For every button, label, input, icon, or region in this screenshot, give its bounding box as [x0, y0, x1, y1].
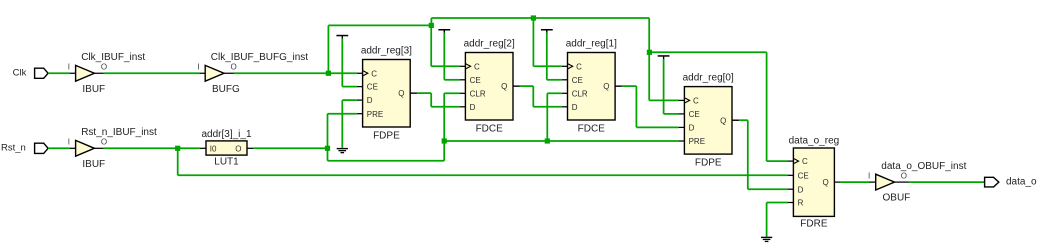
svg-text:CE: CE: [798, 171, 809, 180]
svg-text:O: O: [101, 138, 107, 147]
svg-text:D: D: [572, 103, 578, 112]
ground tie for addr_reg[3] D: [342, 99, 357, 101]
svg-text:Clk_IBUF_BUFG_inst: Clk_IBUF_BUFG_inst: [211, 52, 308, 63]
wire addr_reg[0] Q to data_o_reg D: [733, 119, 740, 121]
svg-text:C: C: [693, 97, 699, 106]
svg-text:Rst_n: Rst_n: [1, 143, 26, 154]
svg-text:D: D: [689, 124, 695, 133]
flip-flop FDRE data_o_reg: [793, 148, 834, 216]
wire LUT1 output net: [247, 147, 253, 149]
wire reset rail to addr_reg[0] PRE pin: [444, 140, 678, 142]
svg-text:Q: Q: [823, 178, 829, 187]
svg-text:CE: CE: [572, 76, 583, 85]
wire Rst_n_IBUF to data_o_reg CE pin: [177, 148, 179, 175]
wire clock drop to addr_reg[0] C pin: [648, 18, 650, 100]
power VCC tie for addr_reg[3] CE: [336, 35, 348, 37]
svg-text:addr[3]_i_1: addr[3]_i_1: [201, 129, 251, 140]
wire Rst_n_IBUF net to LUT1: [94, 147, 103, 149]
buffer IBUF Clk_IBUF_inst: [76, 65, 95, 81]
wire clock drop to addr_reg[2] C pin: [430, 25, 432, 66]
wire addr_reg[1] Q to addr_reg[0] D: [615, 85, 622, 87]
svg-text:I: I: [197, 63, 199, 72]
junction clock branch for data_o_reg: [647, 50, 652, 55]
svg-text:O: O: [231, 62, 237, 71]
svg-text:Clk: Clk: [13, 67, 27, 78]
svg-text:D: D: [798, 185, 804, 194]
svg-text:PRE: PRE: [689, 137, 705, 146]
svg-text:OBUF: OBUF: [883, 193, 911, 204]
junction clock top rail x=431: [429, 23, 434, 28]
wire riser to addr_reg[2] CLR pin: [443, 93, 445, 160]
buffer IBUF Rst_n_IBUF_inst: [76, 140, 95, 156]
svg-text:C: C: [474, 62, 480, 71]
wire LUT1 out lower run: [327, 148, 329, 160]
svg-text:FDRE: FDRE: [800, 219, 828, 230]
svg-text:FDCE: FDCE: [578, 123, 606, 134]
wire clock riser to top rail: [327, 25, 329, 73]
svg-text:Clk_IBUF_inst: Clk_IBUF_inst: [81, 52, 145, 63]
junction reset rail x=444: [442, 138, 447, 143]
ground tie for data_o_reg R: [767, 202, 788, 204]
svg-text:CE: CE: [689, 110, 700, 119]
svg-text:Q: Q: [720, 116, 726, 125]
svg-text:data_o_OBUF_inst: data_o_OBUF_inst: [881, 161, 966, 172]
wire clock top rail y=25.4: [328, 24, 431, 26]
svg-text:FDPE: FDPE: [373, 130, 400, 141]
svg-text:D: D: [470, 103, 476, 112]
lut LUT1 addr[3]_i_1: [206, 141, 247, 155]
svg-text:CLR: CLR: [470, 89, 486, 98]
svg-text:R: R: [798, 199, 804, 208]
svg-text:Q: Q: [501, 82, 507, 91]
svg-text:addr_reg[0]: addr_reg[0]: [683, 73, 734, 84]
input port Clk: [35, 68, 49, 78]
svg-text:Q: Q: [398, 89, 404, 98]
buffer BUFG Clk_IBUF_BUFG_inst: [205, 65, 224, 81]
svg-text:LUT1: LUT1: [214, 156, 239, 167]
svg-text:Q: Q: [603, 82, 609, 91]
wire Clk port to IBUF: [48, 72, 70, 74]
wire clock branch to data_o_reg C pin: [649, 51, 766, 53]
flip-flop FDCE addr_reg[2]: [465, 53, 513, 121]
svg-text:I0: I0: [210, 144, 217, 153]
svg-text:I: I: [868, 171, 870, 180]
flip-flop FDCE addr_reg[1]: [568, 53, 616, 121]
svg-text:C: C: [576, 62, 582, 71]
wire data_o_reg Q to OBUF: [840, 181, 869, 183]
svg-text:O: O: [235, 144, 241, 153]
svg-text:addr_reg[2]: addr_reg[2]: [464, 39, 515, 50]
svg-text:I: I: [68, 63, 70, 72]
svg-text:CLR: CLR: [572, 89, 588, 98]
svg-text:FDPE: FDPE: [695, 158, 722, 169]
output port data_o: [985, 177, 999, 187]
svg-text:CE: CE: [470, 76, 481, 85]
svg-text:PRE: PRE: [367, 110, 383, 119]
svg-text:C: C: [802, 157, 808, 166]
buffer OBUF data_o_OBUF_inst: [876, 174, 895, 190]
junction clock top rail x=533: [531, 15, 536, 20]
svg-text:O: O: [101, 62, 107, 71]
svg-text:I: I: [68, 138, 70, 147]
svg-text:CE: CE: [367, 83, 378, 92]
svg-text:BUFG: BUFG: [212, 84, 240, 95]
svg-text:IBUF: IBUF: [82, 159, 105, 170]
svg-text:Rst_n_IBUF_inst: Rst_n_IBUF_inst: [81, 127, 157, 138]
input port Rst_n: [35, 143, 49, 153]
wire LUT1 out to addr_reg[3] PRE pin: [327, 114, 329, 149]
wire clock net to addr_reg[3] C pin: [224, 72, 234, 74]
svg-text:data_o_reg: data_o_reg: [789, 136, 840, 147]
junction Rst_n_IBUF net: [175, 146, 180, 151]
wire OBUF output to port data_o: [895, 181, 909, 183]
svg-text:data_o: data_o: [1006, 176, 1037, 187]
flip-flop FDPE addr_reg[0]: [684, 87, 732, 155]
flip-flop FDPE addr_reg[3]: [363, 60, 411, 128]
svg-text:addr_reg[3]: addr_reg[3]: [361, 46, 412, 57]
svg-text:addr_reg[1]: addr_reg[1]: [566, 39, 617, 50]
power VCC tie for addr_reg[1] CE: [541, 29, 553, 31]
svg-text:FDCE: FDCE: [476, 123, 504, 134]
svg-text:D: D: [367, 96, 373, 105]
wire addr_reg[2] Q to addr_reg[1] D: [513, 85, 520, 87]
svg-text:IBUF: IBUF: [82, 84, 105, 95]
junction LUT1 output net: [325, 146, 330, 151]
power VCC tie for addr_reg[2] CE: [438, 29, 450, 31]
wire clock rail step up: [430, 18, 432, 25]
junction clock net at x=328: [326, 71, 331, 76]
svg-text:C: C: [371, 69, 377, 78]
wire Rst_n port to IBUF: [48, 147, 70, 149]
wire clock top rail y=18: [431, 17, 649, 19]
svg-text:O: O: [901, 171, 907, 180]
wire riser to addr_reg[1] CLR pin: [546, 93, 548, 141]
wire Clk_IBUF net to BUFG: [94, 72, 103, 74]
wire clock drop to addr_reg[1] C pin: [532, 18, 534, 66]
wire addr_reg[3] Q to addr_reg[2] D: [410, 92, 417, 94]
junction reset rail x=547: [545, 138, 550, 143]
power VCC tie for addr_reg[0] CE: [658, 55, 670, 57]
